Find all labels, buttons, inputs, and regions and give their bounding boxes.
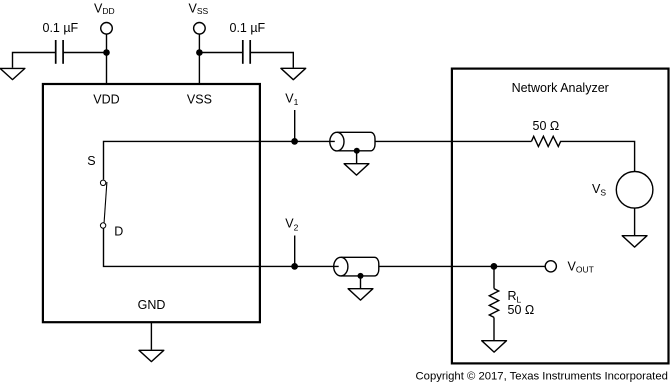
- resistor R1 50 ohm: [531, 136, 560, 146]
- svg-text:0.1 µF: 0.1 µF: [230, 21, 266, 35]
- ground G6: [622, 236, 647, 247]
- svg-text:Copyright © 2017, Texas Instru: Copyright © 2017, Texas Instruments Inco…: [416, 371, 668, 383]
- junction VSS / C2: [196, 49, 203, 56]
- svg-text:S: S: [87, 154, 95, 168]
- capacitor C2: [243, 40, 250, 64]
- ground G2: [281, 68, 306, 79]
- svg-text:VSS: VSS: [187, 93, 212, 107]
- svg-text:50 Ω: 50 Ω: [533, 119, 560, 133]
- wire VDD terminal to U1 VDD pin: [106, 34, 108, 84]
- wire V2 node to coax W2: [295, 265, 339, 267]
- wire RL to ground: [493, 317, 495, 340]
- svg-text:0.1 µF: 0.1 µF: [43, 21, 79, 35]
- wire R1 to VS: [560, 141, 635, 171]
- ground G4: [348, 289, 373, 300]
- wire W2 shield to ground: [360, 276, 362, 288]
- DUT box U1: [43, 84, 260, 322]
- wire switch D to node V2: [104, 228, 295, 266]
- voltage source VS: [616, 172, 653, 209]
- svg-text:Network Analyzer: Network Analyzer: [512, 81, 609, 95]
- wire switch S to node V1: [104, 141, 295, 179]
- ground G7: [482, 341, 507, 352]
- ground G3: [344, 164, 369, 175]
- terminal VOUT: [545, 261, 556, 272]
- terminal VSS: [194, 23, 206, 35]
- junction V2: [291, 263, 298, 270]
- junction V1: [291, 138, 298, 145]
- wire VS to ground: [634, 208, 636, 235]
- switch S1 blade: [104, 182, 107, 223]
- wire GND pin to ground: [150, 322, 152, 350]
- wire C2 right plate to ground: [250, 53, 293, 68]
- wire W1 shield to ground: [356, 151, 358, 163]
- svg-text:D: D: [114, 225, 123, 239]
- svg-text:GND: GND: [138, 298, 166, 312]
- wire C1 right plate to VDD node: [63, 52, 106, 54]
- coax cable W2: [334, 257, 379, 276]
- junction VDD / C1: [103, 49, 110, 56]
- junction RL / VOUT: [491, 263, 498, 270]
- junction W1 shield: [354, 148, 360, 154]
- wire V2 label tick: [294, 236, 296, 267]
- ground G1: [0, 68, 25, 79]
- wire V1 node to coax W1: [295, 140, 335, 142]
- wire VSS terminal to U1 VSS pin: [198, 34, 200, 84]
- coax cable W1: [330, 132, 375, 151]
- switch S1 pole contact: [100, 180, 105, 185]
- wire W1 to R1: [375, 140, 532, 142]
- resistor RL 50 ohm: [489, 289, 498, 318]
- svg-text:VDD: VDD: [93, 93, 119, 107]
- wire VOUT node to RL: [493, 266, 495, 288]
- switch S1 throw contact: [100, 223, 105, 228]
- terminal VDD: [101, 23, 113, 35]
- wire V1 label tick: [294, 110, 296, 141]
- Network Analyzer box: [452, 69, 669, 364]
- capacitor C1: [56, 40, 63, 64]
- junction W2 shield: [358, 273, 364, 279]
- wire C1 left plate to ground: [13, 53, 56, 68]
- svg-text:50 Ω: 50 Ω: [508, 303, 535, 317]
- ground G5: [139, 350, 164, 361]
- wire VSS node to C2 left plate: [199, 52, 242, 54]
- wire W2 to VOUT: [379, 265, 546, 267]
